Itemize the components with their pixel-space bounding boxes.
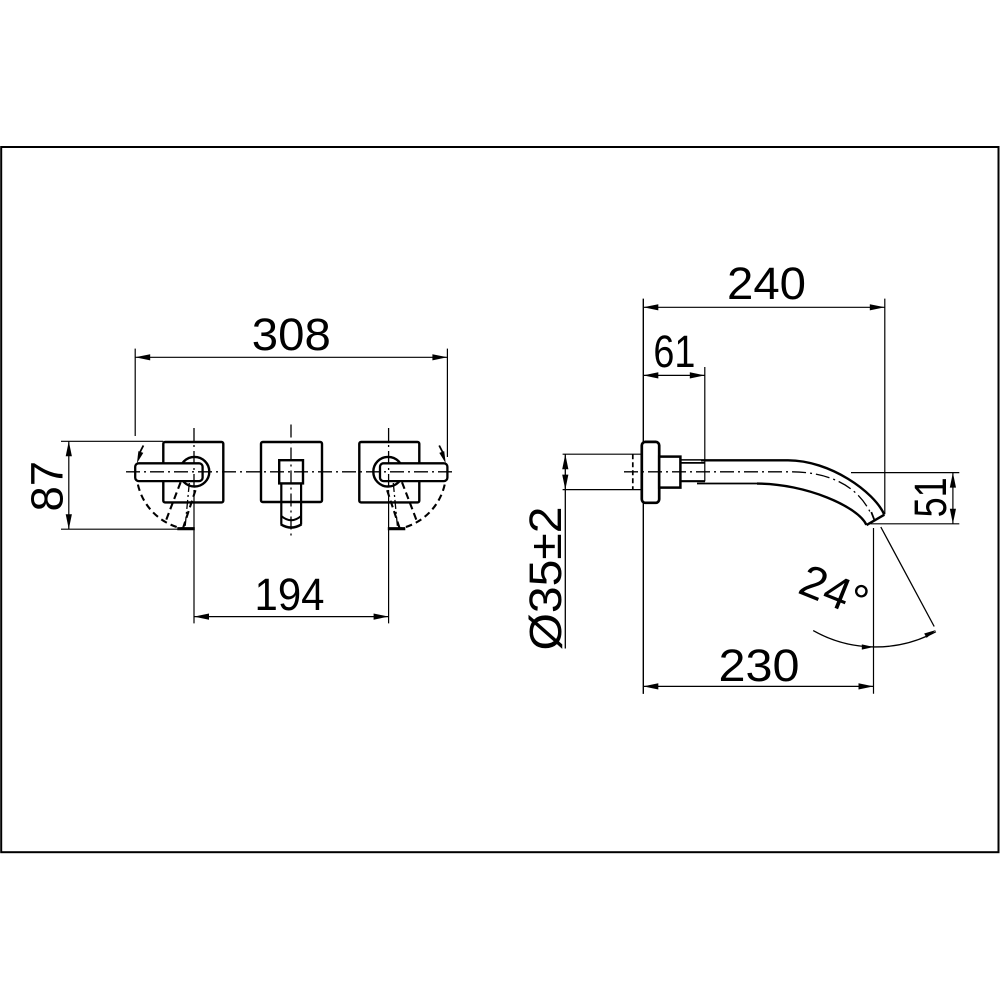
- svg-text:87: 87: [22, 461, 73, 512]
- swing arc overshoot: [140, 446, 144, 453]
- dimension dia 35 +/- 2: [520, 454, 571, 650]
- concealed body bottom line: [563, 489, 642, 491]
- handle swing arc (dashed): [136, 463, 182, 528]
- spout neck bottom edge: [680, 480, 705, 482]
- svg-text:51: 51: [905, 477, 956, 517]
- angle dimension 24 deg: [793, 527, 936, 650]
- dimension 194: [194, 490, 389, 623]
- spout tube sides (front): [281, 484, 301, 525]
- swung lever outline (dashed): [166, 482, 180, 520]
- FRONT VIEW: [22, 309, 457, 623]
- dimension 61: [643, 326, 705, 481]
- swing arc arrowhead: [137, 451, 143, 463]
- handle lever: [135, 463, 202, 481]
- spout outlet inner lip (front): [281, 516, 301, 520]
- SIDE VIEW: [520, 258, 959, 694]
- wall flange (side): [642, 442, 659, 503]
- handle rosette circle: [180, 457, 210, 487]
- svg-text:230: 230: [719, 640, 800, 691]
- swung lever centerline: [185, 483, 189, 526]
- dimension 51: [851, 473, 959, 524]
- swung lever tip: [177, 527, 195, 530]
- svg-text:194: 194: [255, 569, 325, 620]
- spout base block (side): [659, 457, 680, 488]
- svg-text:240: 240: [727, 258, 806, 309]
- dimension 230: [643, 528, 873, 694]
- dimension 308: [135, 309, 447, 457]
- spout tube top contour: [701, 460, 884, 514]
- spout vertical centerline (front): [290, 425, 292, 538]
- spout neck top edges: [680, 459, 701, 461]
- handle escutcheon square: [163, 442, 223, 502]
- wall reference line (lower): [642, 503, 644, 694]
- spout escutcheon square (front): [261, 442, 322, 502]
- right handle assembly (mirrored): [359, 428, 447, 529]
- svg-text:308: 308: [252, 309, 331, 360]
- concealed body top line: [563, 453, 642, 455]
- spout tip face: [867, 515, 885, 525]
- spout base block (front): [279, 460, 303, 483]
- spout tube bottom contour: [697, 483, 757, 485]
- svg-text:Ø35±2: Ø35±2: [520, 507, 571, 651]
- side view centerline: [624, 472, 871, 513]
- spout tip inner lip: [871, 512, 875, 521]
- dimension 240: [643, 258, 885, 514]
- handle vertical centerline: [193, 428, 195, 490]
- svg-text:61: 61: [653, 326, 695, 377]
- front view horizontal centerline: [126, 471, 456, 473]
- concealed body end (dashed): [632, 454, 634, 489]
- spout outlet bottom (front): [281, 524, 302, 527]
- wall reference line (upper): [642, 299, 644, 442]
- left handle assembly: [135, 428, 223, 529]
- dimension 87: [22, 441, 178, 529]
